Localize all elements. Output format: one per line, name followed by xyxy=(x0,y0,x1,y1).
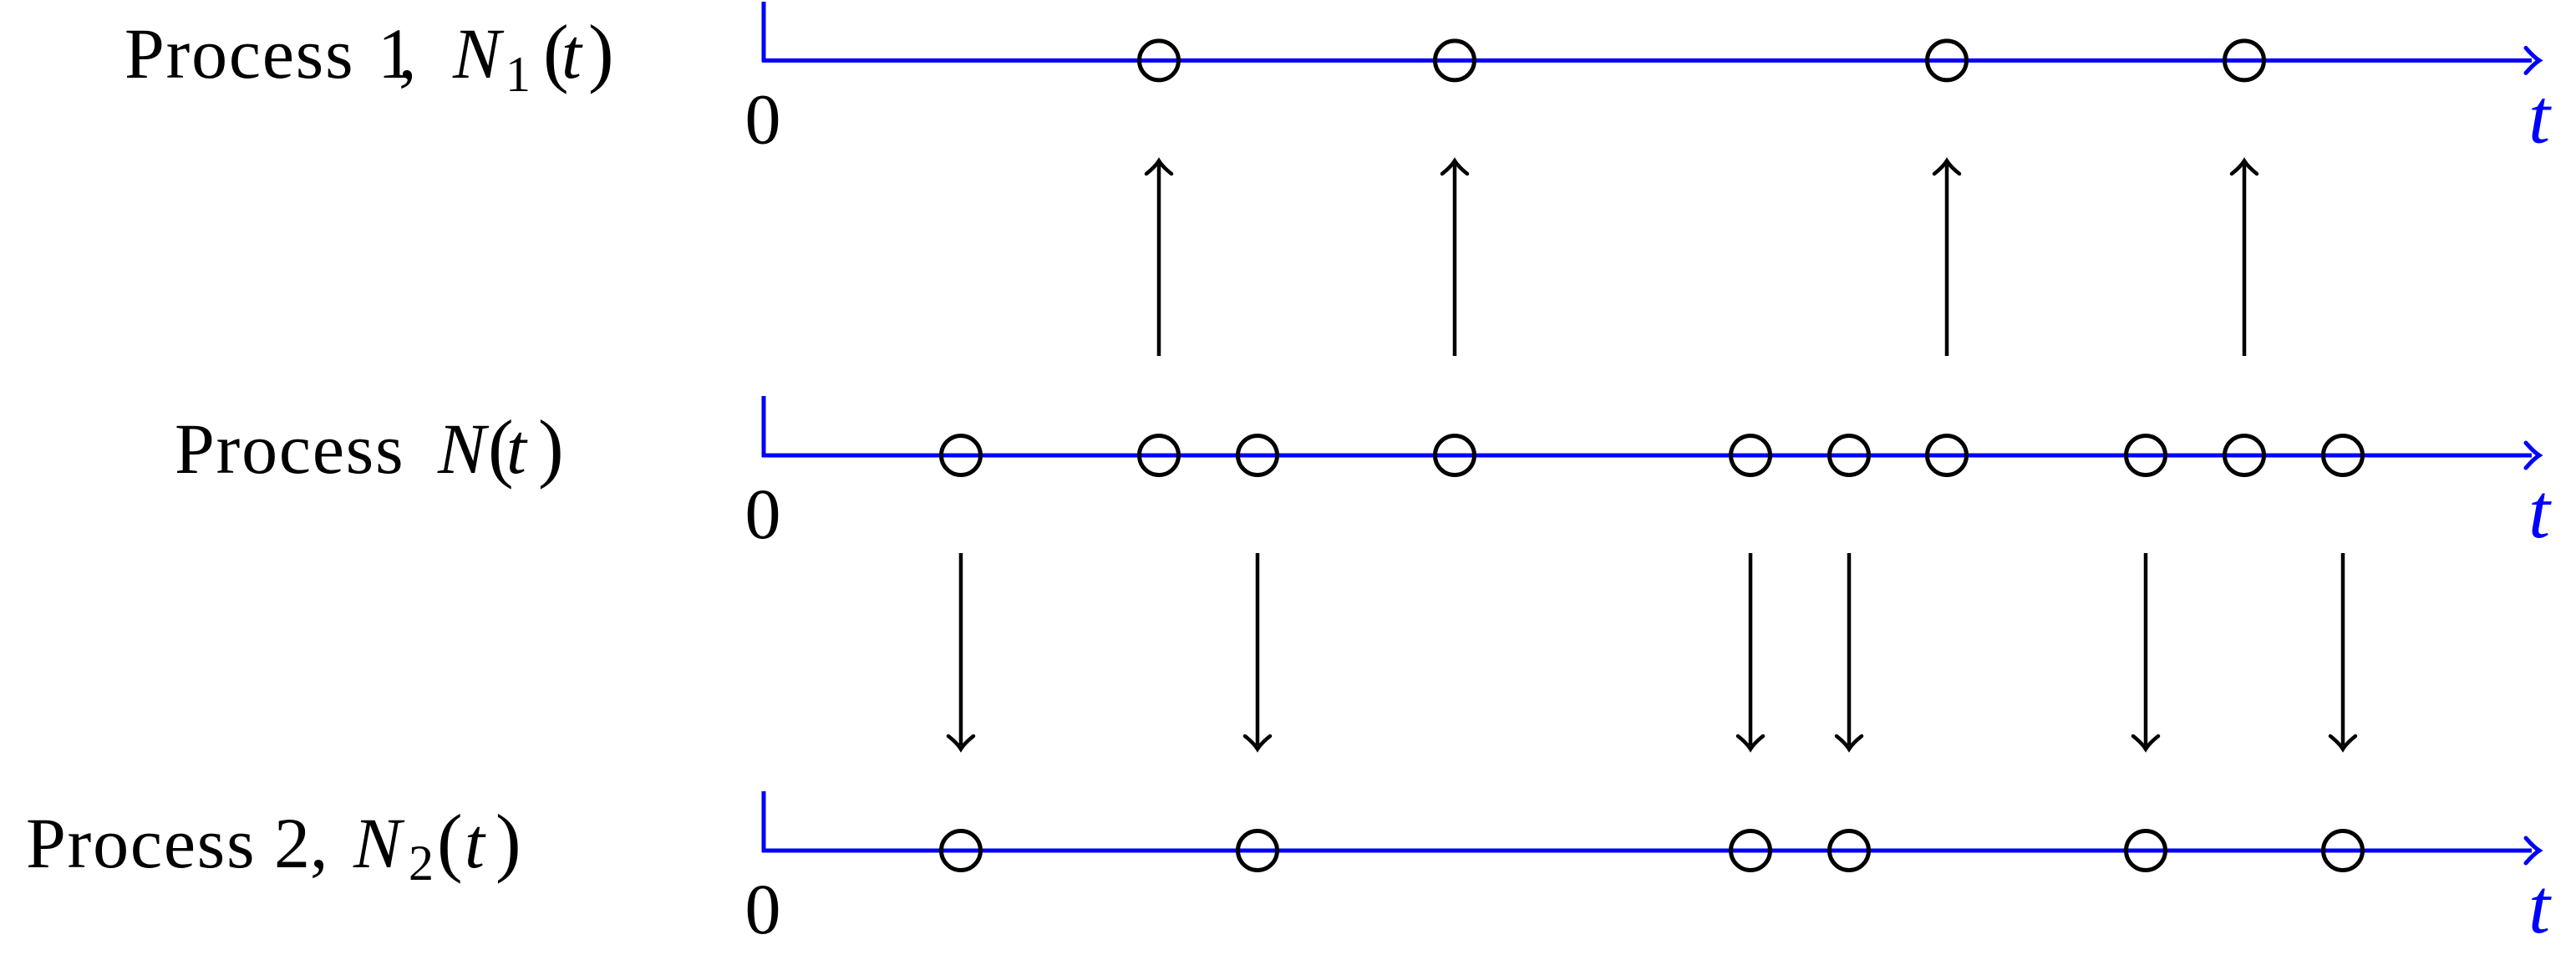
svg-text:): ) xyxy=(495,799,521,884)
svg-text:Process: Process xyxy=(26,803,256,883)
label Process N(t) xyxy=(175,404,564,490)
circle B10 xyxy=(2324,436,2363,475)
circle C3 xyxy=(1731,831,1771,871)
axis 2 (Process N timeline) xyxy=(762,396,2539,468)
axis 1 line xyxy=(762,58,2532,63)
up arrow 3 xyxy=(1934,161,1959,357)
axis 1 event circles xyxy=(1140,41,2264,80)
svg-text:0: 0 xyxy=(745,474,781,554)
circle C6 xyxy=(2324,831,2363,871)
axis 3 line xyxy=(762,849,2532,853)
axis 1 origin tick xyxy=(762,2,766,62)
label Process 1, N1(t) xyxy=(124,9,614,102)
svg-text:,: , xyxy=(310,803,328,883)
label Process 2, N2(t) xyxy=(26,799,521,891)
down arrows from N(t) to Process 2 xyxy=(948,553,2355,749)
up arrows from N(t) to Process 1 xyxy=(1146,161,2257,357)
axis 2 arrowhead xyxy=(2526,443,2539,468)
svg-text:N: N xyxy=(437,409,490,489)
circle C4 xyxy=(1830,831,1869,871)
circle B6 xyxy=(1830,436,1869,475)
svg-text:t: t xyxy=(561,13,583,94)
circle A4 xyxy=(2225,41,2264,80)
axis 2 origin tick xyxy=(762,396,766,457)
axis 3 arrowhead xyxy=(2526,838,2539,863)
svg-text:N: N xyxy=(353,803,405,883)
circle B7 xyxy=(1928,436,1967,475)
svg-text:t: t xyxy=(2528,864,2552,950)
axis 3 (Process 2 timeline) xyxy=(762,791,2539,863)
svg-text:t: t xyxy=(465,803,486,883)
axis 3 origin tick xyxy=(762,791,766,852)
up arrow 2 xyxy=(1442,161,1467,357)
svg-text:Process: Process xyxy=(175,409,404,489)
down arrow 6 xyxy=(2330,553,2355,749)
circle B1 xyxy=(942,436,981,475)
down arrow 5 xyxy=(2133,553,2158,749)
svg-text:N: N xyxy=(452,13,505,94)
down arrow 1 xyxy=(948,553,973,749)
svg-text:2: 2 xyxy=(409,836,434,891)
svg-text:1: 1 xyxy=(506,47,531,102)
svg-text:Process: Process xyxy=(124,13,354,94)
circle A2 xyxy=(1435,41,1475,80)
circle C1 xyxy=(942,831,981,871)
circle B8 xyxy=(2126,436,2166,475)
circle B5 xyxy=(1731,436,1771,475)
circle B9 xyxy=(2225,436,2264,475)
circle B4 xyxy=(1435,436,1475,475)
svg-text:): ) xyxy=(538,404,564,490)
svg-text:): ) xyxy=(588,9,614,94)
svg-text:(: ( xyxy=(437,799,463,884)
circle A1 xyxy=(1140,41,1179,80)
axis 1 (Process 1 timeline) xyxy=(762,2,2539,73)
svg-text:t: t xyxy=(2528,469,2552,555)
axis 2 line xyxy=(762,454,2532,458)
svg-text:2: 2 xyxy=(274,803,310,883)
up arrow 1 xyxy=(1146,161,1171,357)
svg-text:,: , xyxy=(399,13,417,94)
axis 2 event circles xyxy=(942,436,2363,475)
circle B3 xyxy=(1238,436,1278,475)
svg-text:t: t xyxy=(2528,74,2552,160)
axis 1 arrowhead xyxy=(2526,48,2539,73)
down arrow 3 xyxy=(1738,553,1763,749)
circle B2 xyxy=(1140,436,1179,475)
axis 3 event circles xyxy=(942,831,2363,871)
svg-text:t: t xyxy=(506,409,528,489)
circle C2 xyxy=(1238,831,1278,871)
down arrow 4 xyxy=(1837,553,1862,749)
svg-text:0: 0 xyxy=(745,79,781,159)
circle C5 xyxy=(2126,831,2166,871)
circle A3 xyxy=(1928,41,1967,80)
svg-text:0: 0 xyxy=(745,869,781,949)
up arrow 4 xyxy=(2232,161,2257,357)
down arrow 2 xyxy=(1245,553,1270,749)
